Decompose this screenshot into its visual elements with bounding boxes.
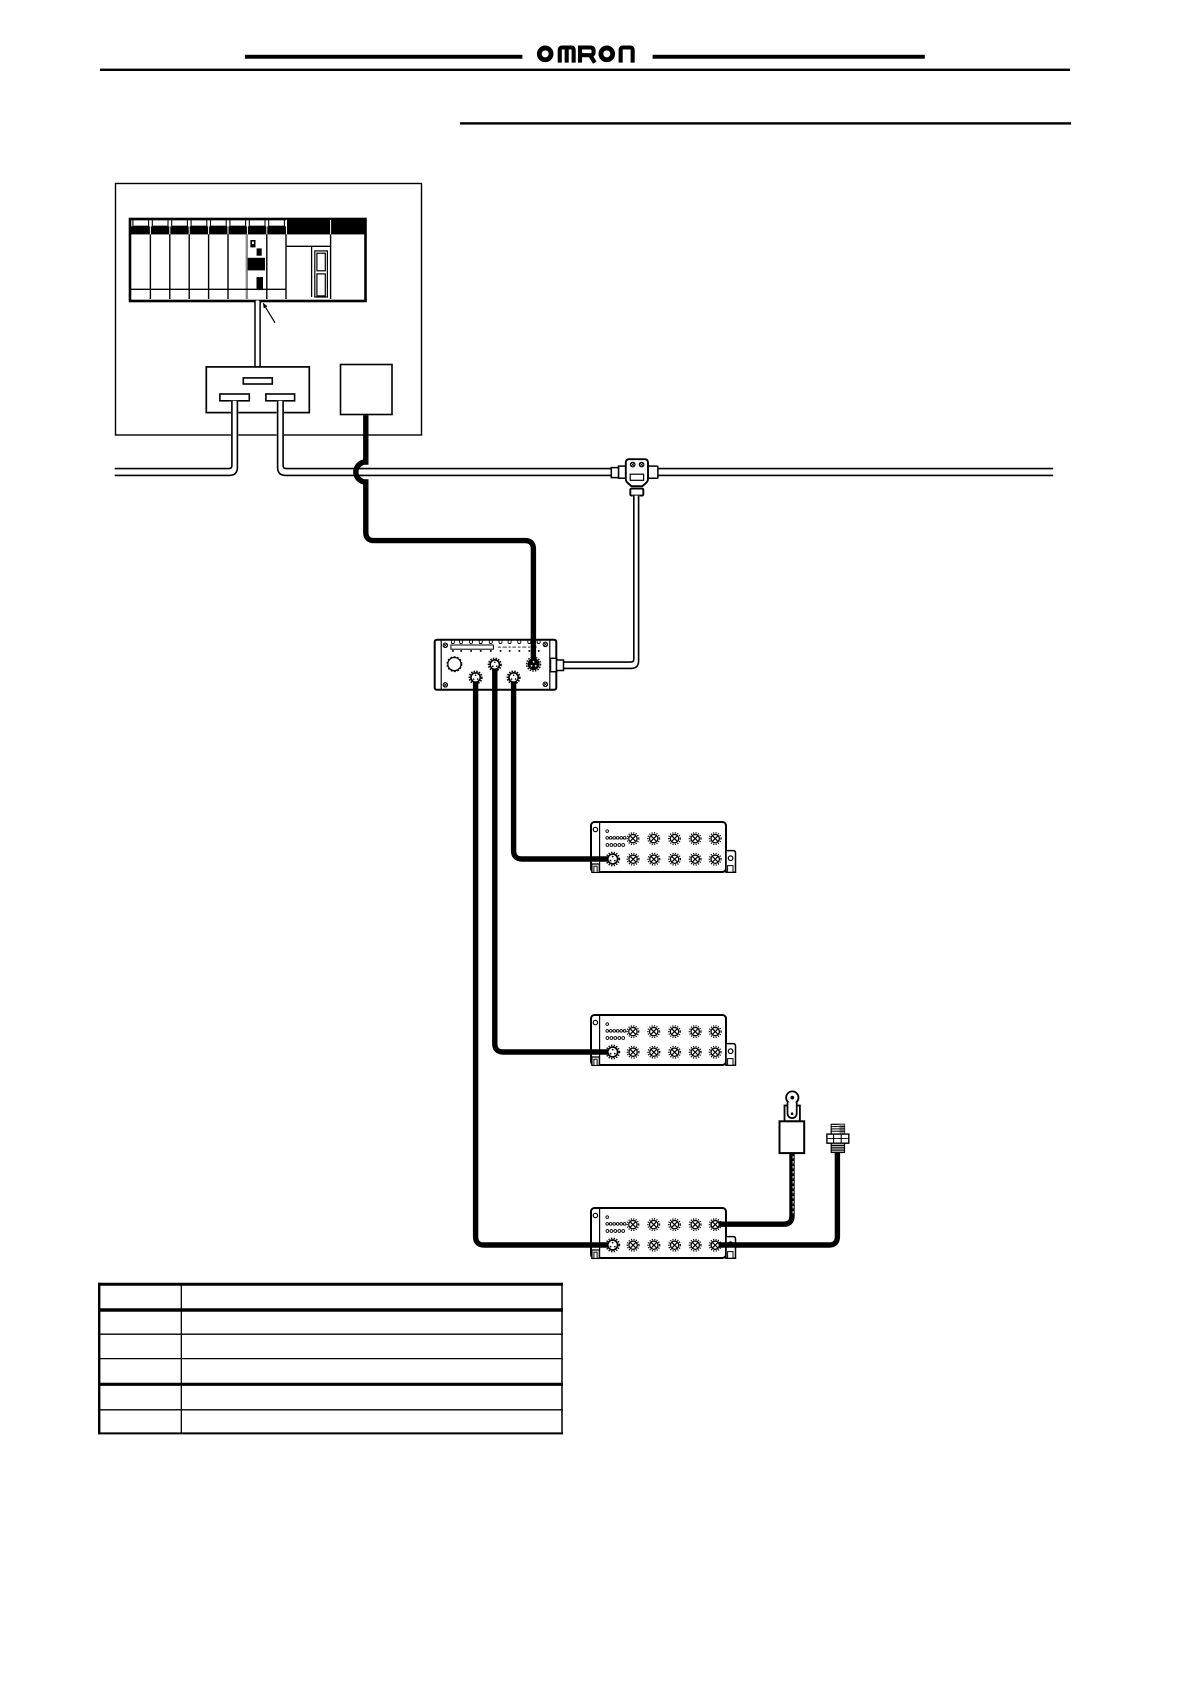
- wire: thick cable master to slave 3: [476, 678, 609, 1246]
- wire: cable proximity sensor to slave 3 input: [712, 1153, 837, 1246]
- wire: right cable inner line: [283, 401, 1053, 469]
- title rule: [460, 122, 1071, 124]
- PLC rack top black band (right section): [286, 220, 365, 235]
- wire: right cable outer line: [278, 401, 1054, 476]
- proximity sensor barrel bottom threads: [831, 1143, 844, 1152]
- link unit top connector bar: [243, 378, 272, 384]
- photoelectric sensor bracket: [785, 1106, 800, 1122]
- slave 2 comm connector recap: [608, 1047, 618, 1057]
- photoelectric sensor head circle: [786, 1091, 798, 1103]
- wire: cable from PLC to link unit: [255, 301, 260, 379]
- slave 3 top-right connector recap: [711, 1221, 719, 1229]
- wire: thick cable master to slave 2: [495, 665, 609, 1052]
- master indicator dot row: [452, 650, 540, 652]
- arrow pointing to PLC cable: [266, 307, 275, 323]
- power supply terminal block outline: [315, 251, 328, 297]
- CPU black band: [248, 258, 265, 271]
- PLC rack outer frame: [130, 219, 366, 301]
- wire: drop cable outer line: [564, 496, 639, 669]
- power supply box: [341, 365, 393, 415]
- power supply section divider line: [286, 245, 331, 247]
- master connector A recap: [471, 673, 480, 682]
- master left flange line: [440, 640, 442, 690]
- slave 3 bottom-right connector recap: [711, 1241, 719, 1249]
- slave I/O terminal unit 1: [591, 822, 736, 872]
- photoelectric sensor body: [780, 1121, 805, 1153]
- master connector A (bottom-left M12): [469, 671, 481, 683]
- wire: drop cable inner line: [564, 496, 634, 662]
- PLC rack top black band (left modules): [131, 226, 286, 234]
- host link unit box: [206, 367, 309, 413]
- master right connector cap: [557, 660, 564, 671]
- master connector B (middle M12): [489, 658, 501, 670]
- master tiny print: [498, 647, 537, 648]
- wire: thick cable master to slave 1: [514, 678, 609, 860]
- slave I/O terminal unit 3: [591, 1208, 736, 1258]
- CPU module left gray divider: [246, 234, 248, 299]
- wire: left cable inner line: [115, 401, 232, 469]
- master connector B recap: [490, 660, 499, 669]
- PLC rack bottom strip line: [131, 288, 286, 290]
- PLC module divider gaps in band: [150, 220, 330, 235]
- wire: left cable outer line: [115, 401, 238, 476]
- wire: right communications cable to trunk (white core): [280, 401, 1053, 472]
- T-branch screw right: [639, 462, 644, 467]
- T-branch bottom tap block: [630, 489, 643, 496]
- master right connector housing: [551, 658, 557, 671]
- CPU indicator small square: [250, 240, 255, 247]
- slave 3 comm connector recap: [608, 1240, 618, 1250]
- T-branch tap body: [626, 459, 648, 486]
- wire: drop cable from T-branch to master (white core): [564, 496, 637, 666]
- link unit bottom-left connector bar: [220, 394, 249, 401]
- wire: thick cable from power box over trunk to master connector: [356, 415, 534, 664]
- link unit bottom-right connector bar: [266, 394, 295, 401]
- master knurled round opening: [448, 658, 461, 671]
- master top tick marks: [451, 640, 540, 643]
- terminal block upper window: [317, 253, 325, 271]
- CPU small black rect: [257, 248, 262, 255]
- OMRON logo right bar: [653, 55, 925, 59]
- PLC rack module top tabs: [133, 220, 285, 226]
- slave 1 comm connector recap: [608, 854, 618, 864]
- T-branch tap right connector: [648, 466, 658, 478]
- master right flange line: [549, 640, 551, 690]
- PLC module dividers: [150, 234, 330, 299]
- header rule: [100, 69, 1070, 71]
- photoelectric sensor slot link: [788, 1102, 797, 1118]
- legend table: [98, 1283, 563, 1435]
- OMRON logo text: [539, 48, 632, 63]
- power supply inner vertical: [311, 246, 313, 297]
- CPU lower black rect: [257, 277, 264, 290]
- master connector D (black, network): [527, 657, 541, 671]
- master label bar: [451, 645, 494, 649]
- wire: left communications cable to trunk (white core): [115, 401, 235, 472]
- DeviceNet master unit body: [435, 640, 557, 690]
- wire: cable photoelectric sensor to slave 3 input: [712, 1153, 792, 1225]
- T-branch label window: [630, 474, 643, 480]
- master connector C (bottom-right M12): [507, 671, 519, 683]
- control panel enclosure box: [116, 184, 422, 436]
- terminal block lower window: [317, 274, 325, 296]
- T-branch screw left: [630, 462, 635, 467]
- T-branch tap left connector small: [611, 468, 618, 478]
- slave I/O terminal unit 2: [591, 1015, 736, 1065]
- master connector C recap: [509, 673, 518, 682]
- master corner screws: [443, 642, 547, 687]
- proximity sensor barrel top threads: [831, 1124, 844, 1134]
- proximity sensor hex nut: [827, 1134, 849, 1143]
- OMRON logo left bar: [245, 55, 523, 59]
- T-branch tap left connector large: [619, 466, 626, 478]
